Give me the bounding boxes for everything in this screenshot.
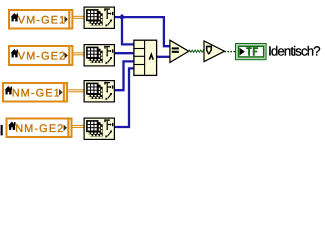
svg-text:Identisch?: Identisch? (268, 44, 320, 59)
svg-text:NM-GE1: NM-GE1 (12, 87, 61, 99)
svg-text:VM-GE2: VM-GE2 (18, 50, 66, 62)
svg-text:NM-GE2: NM-GE2 (15, 123, 64, 135)
svg-text:VM-GE1: VM-GE1 (18, 14, 66, 26)
